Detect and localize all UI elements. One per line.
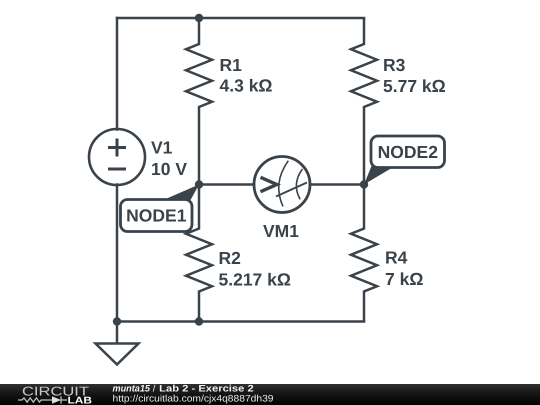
footer bar: [0, 384, 540, 405]
node junction dot top: [195, 14, 203, 22]
svg-text:VM1: VM1: [263, 221, 299, 241]
footer logo resistor-diode squiggle: [18, 396, 67, 403]
svg-text:10 V: 10 V: [151, 159, 187, 179]
label R1 value: [220, 55, 273, 95]
label V1 value: [151, 138, 187, 179]
node junction dot bottom R2: [195, 317, 203, 325]
wire top rail: [117, 17, 364, 20]
svg-text:R4: R4: [385, 248, 408, 268]
resistor R2: [186, 185, 212, 322]
svg-text:LAB: LAB: [68, 396, 93, 405]
svg-text:4.3 kΩ: 4.3 kΩ: [220, 76, 273, 96]
wire middle left (node1 to VM1): [199, 183, 254, 186]
svg-text:7 kΩ: 7 kΩ: [385, 269, 423, 289]
svg-text:NODE2: NODE2: [378, 142, 439, 162]
resistor R3: [351, 18, 377, 185]
voltmeter VM1: [254, 157, 310, 213]
svg-text:R2: R2: [219, 248, 242, 268]
node junction dot NODE1: [195, 180, 203, 188]
svg-text:V1: V1: [151, 138, 173, 158]
label R4 value: [385, 248, 423, 290]
svg-text:http://circuitlab.com/cjx4q888: http://circuitlab.com/cjx4q8887dh39: [113, 394, 274, 405]
wire middle right (VM1 to node2): [310, 183, 364, 186]
label R3 value: [383, 55, 446, 96]
wire left vertical top to V1: [116, 18, 119, 130]
svg-text:NODE1: NODE1: [126, 206, 187, 226]
label R2 value: [219, 248, 291, 290]
resistor R1: [186, 18, 212, 185]
svg-text:5.217 kΩ: 5.217 kΩ: [219, 270, 291, 290]
node junction dot bottom left: [113, 317, 121, 325]
wire bottom rail: [117, 320, 364, 323]
svg-text:R1: R1: [220, 55, 243, 75]
node NODE2 flag: [364, 136, 445, 185]
resistor R4: [351, 185, 377, 322]
ground: [96, 322, 139, 365]
node junction dot NODE2: [360, 180, 368, 188]
wire left vertical V1 to bottom rail: [116, 185, 119, 322]
node NODE1 flag: [121, 185, 200, 232]
svg-text:R3: R3: [383, 55, 406, 75]
footer title line: [113, 383, 254, 394]
svg-text:5.77 kΩ: 5.77 kΩ: [383, 76, 446, 96]
voltage source V1: [89, 129, 145, 185]
